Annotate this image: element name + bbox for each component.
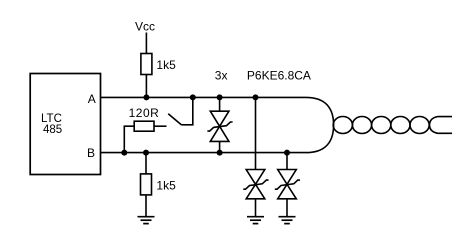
TVS diode D3 (B to ground): [275, 150, 300, 224]
twisted-pair open end C-shape with stubs: [430, 117, 453, 134]
ground symbol for D3: [279, 217, 296, 224]
IC U1 LTC485 box: [30, 74, 100, 175]
D2 upper triangle: [246, 170, 265, 185]
svg-text:1k5: 1k5: [156, 58, 176, 72]
twisted-pair loop 3: [372, 117, 391, 134]
wire net A (horizontal line): [101, 96, 307, 98]
twisted-pair loop 2: [352, 117, 371, 134]
cable end D-shape (A and B merge): [306, 97, 334, 152]
svg-text:120R: 120R: [129, 106, 160, 120]
wire net B (horizontal line): [101, 152, 307, 154]
D1 lower triangle: [210, 126, 229, 141]
junction dot node B / D3: [284, 150, 290, 156]
twisted-pair loop 1: [333, 117, 352, 134]
wire node A to D1: [219, 97, 221, 111]
junction dot node A / D1: [217, 94, 223, 100]
wire D1 to node B: [219, 141, 221, 152]
D3 lower triangle: [278, 184, 297, 199]
junction dot node A / switch: [190, 94, 196, 100]
D2 bidirectional bar: [243, 180, 268, 189]
label U1 "LTC 485": [41, 113, 62, 136]
TVS diode D1 (between A and B): [207, 94, 232, 155]
junction dot node B / R3: [143, 150, 149, 156]
svg-text:B: B: [87, 146, 95, 160]
wire R2 right to switch contact: [154, 125, 167, 127]
resistor R1 1k5 pull-up body: [141, 54, 152, 75]
ground symbol for D2: [247, 217, 264, 224]
wire R3 to ground: [145, 195, 147, 217]
wire switch to node A: [181, 97, 193, 124]
svg-text:1k5: 1k5: [156, 179, 176, 193]
D1 bidirectional bar: [207, 122, 232, 131]
wire D3 to ground: [286, 199, 288, 217]
svg-text:485: 485: [43, 124, 62, 136]
svg-text:A: A: [88, 92, 96, 106]
wire node A to D2 (crosses net B): [255, 97, 257, 169]
wire R2 left to node B: [124, 126, 134, 152]
svg-text:3x: 3x: [215, 69, 228, 83]
TVS diode D2 (A to ground): [243, 94, 268, 223]
resistor R3 1k5 pull-down: wire node B to R3: [145, 153, 147, 174]
junction dot node B / D1: [217, 150, 223, 156]
wire Vcc to R1: [145, 33, 147, 54]
svg-text:P6KE6.8CA: P6KE6.8CA: [247, 69, 311, 83]
svg-text:Vcc: Vcc: [135, 20, 155, 34]
resistor R2 120R body: [134, 121, 154, 131]
D2 lower triangle: [246, 184, 265, 199]
switch S1 arm (open): [168, 114, 181, 125]
wire node B to D3: [286, 153, 288, 170]
D1 upper triangle: [210, 111, 229, 126]
resistor R3 1k5 pull-down body: [141, 174, 152, 195]
D3 bidirectional bar: [275, 180, 300, 189]
twisted-pair loop 4: [391, 117, 410, 134]
junction dot node A / R1: [143, 94, 149, 100]
junction dot node A / D2: [253, 94, 259, 100]
junction dot node B / R2: [121, 150, 127, 156]
twisted-pair loop 5: [410, 117, 429, 134]
ground symbol for R3: [138, 217, 155, 224]
wire D2 to ground: [255, 199, 257, 217]
D3 upper triangle: [278, 170, 297, 185]
wire R1 to node A: [145, 75, 147, 98]
